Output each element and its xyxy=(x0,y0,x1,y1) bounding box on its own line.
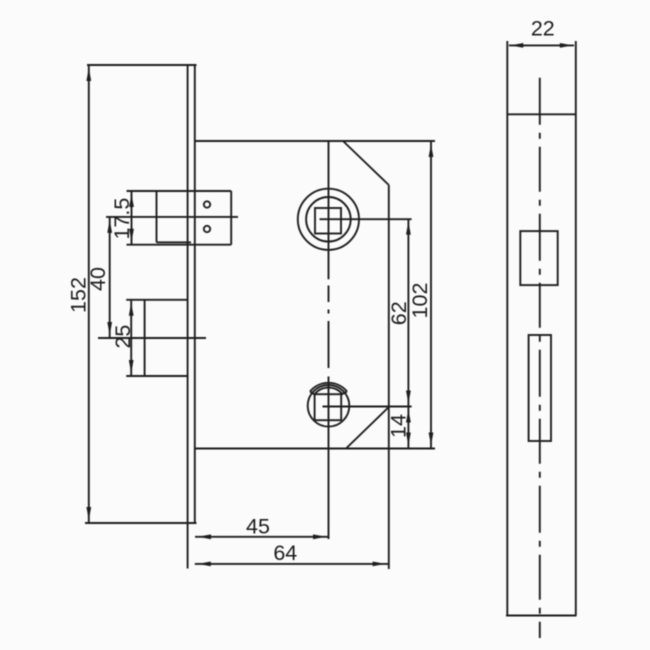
dim 45 arrow right xyxy=(313,534,326,539)
side view bottom edge xyxy=(506,615,577,617)
dim 25 arrow down xyxy=(129,360,134,373)
side view lower cutout rect xyxy=(529,335,551,441)
dim 14 arrow down xyxy=(406,433,411,446)
deadbolt front edge xyxy=(144,300,146,376)
dim 64 arrow left xyxy=(198,562,211,567)
dim 152 arrow up xyxy=(86,68,91,81)
svg-text:25: 25 xyxy=(111,325,135,349)
dim 25 arrow up xyxy=(129,303,134,316)
dim 45 line xyxy=(195,536,329,538)
dim 17.5 arrow up xyxy=(129,194,134,207)
extension line below faceplate for 64 dim xyxy=(187,523,189,569)
latch bolt bottom edge xyxy=(157,241,192,243)
dim 25 line xyxy=(130,300,132,376)
svg-text:62: 62 xyxy=(387,301,411,325)
svg-text:14: 14 xyxy=(386,414,410,438)
cap outer arc right tick xyxy=(341,392,347,395)
dim 45 arrow left xyxy=(198,534,211,539)
dim 102 line xyxy=(430,141,432,449)
spindle vertical centerline solid part xyxy=(328,141,330,279)
deadbolt top edge + 25 extension xyxy=(126,299,188,301)
dim 40 arrow down xyxy=(107,322,112,335)
centerline dot xyxy=(328,310,330,314)
lock body top edge + 102 extension xyxy=(195,140,435,142)
dim 14 arrow up xyxy=(406,410,411,423)
latch screw hole upper xyxy=(204,201,210,207)
centerline dash 2 xyxy=(328,321,330,368)
spindle hub inner circle xyxy=(306,197,351,242)
dim 22 line xyxy=(509,44,574,46)
svg-text:17.5: 17.5 xyxy=(110,198,134,240)
dim 152 line xyxy=(88,65,90,523)
dim 152 arrow down xyxy=(86,507,91,520)
dim 40 arrow up xyxy=(107,220,112,233)
dim 17.5 arrow down xyxy=(129,229,134,242)
lower follower cap inner arc xyxy=(315,388,343,395)
spindle hub outer circle xyxy=(298,189,359,250)
faceplate left edge xyxy=(187,65,189,523)
spindle horizontal centerline + 62 extension xyxy=(320,218,412,220)
lock body bottom edge + 102/14 extension xyxy=(195,448,435,450)
side view centerline xyxy=(539,78,541,638)
centerline dash xyxy=(328,286,330,303)
dim 40 line xyxy=(109,217,111,338)
lock body bottom-right diagonal xyxy=(346,407,389,449)
deadbolt centerline + 40 extension xyxy=(98,337,206,339)
svg-text:64: 64 xyxy=(273,541,297,565)
latch inner bottom edge + 17.5 extension xyxy=(127,244,232,246)
faceplate right edge xyxy=(194,65,196,523)
latch bolt front edge xyxy=(156,191,158,242)
dim 102 arrow up xyxy=(429,144,434,157)
deadbolt bottom edge + 25 extension xyxy=(126,375,188,377)
side view left edge xyxy=(506,41,508,616)
lock body top-right chamfer xyxy=(343,141,389,185)
lower follower circle xyxy=(308,385,350,427)
svg-text:45: 45 xyxy=(246,515,270,539)
dim 102 arrow down xyxy=(429,433,434,446)
dim 17.5 line xyxy=(131,191,133,245)
lock body right edge + 64 extension xyxy=(388,185,390,569)
side view upper cutout rect xyxy=(520,231,557,285)
dim 62 arrow up xyxy=(406,222,411,235)
dim 22 arrow left xyxy=(510,43,523,48)
latch inner box right edge xyxy=(230,191,232,245)
dim 64 line xyxy=(195,563,389,565)
lower follower cap outer arc xyxy=(310,383,347,392)
latch centerline + 40 extension xyxy=(106,216,238,218)
lower follower vertical centerline + 45 extension xyxy=(328,377,330,540)
dim 22 arrow right xyxy=(560,43,573,48)
latch top edge + 17.5 extension xyxy=(127,190,232,192)
spindle square hole xyxy=(315,208,341,234)
svg-text:102: 102 xyxy=(408,283,432,319)
lower follower horizontal centerline + 62/14 extension xyxy=(323,406,412,408)
dim 62 line xyxy=(407,219,409,406)
cap outer arc left tick xyxy=(310,392,315,395)
dim 14 line xyxy=(407,407,409,449)
dim 64 arrow right xyxy=(373,562,386,567)
svg-text:22: 22 xyxy=(531,16,555,40)
svg-text:40: 40 xyxy=(86,267,110,291)
latch screw hole lower xyxy=(204,226,210,232)
dim 62 arrow down xyxy=(406,391,411,404)
side view faceplate top line xyxy=(507,113,576,115)
lower follower square hole xyxy=(315,394,342,420)
faceplate bottom edge + 152 extension line xyxy=(85,522,197,524)
side view right edge xyxy=(575,41,577,616)
faceplate top edge + 152 extension line xyxy=(87,64,197,66)
